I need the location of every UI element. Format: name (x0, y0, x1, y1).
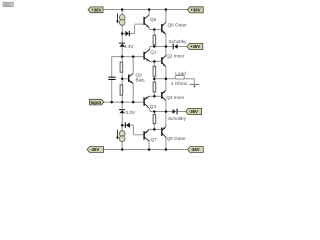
svg-text:Q5: Q5 (150, 17, 157, 22)
svg-text:SB5: SB5 (4, 3, 11, 7)
svg-text:Q8 Outer: Q8 Outer (167, 136, 187, 141)
svg-text:-36V: -36V (191, 147, 200, 152)
svg-text:-36V: -36V (189, 109, 198, 114)
svg-text:Q6 Outer: Q6 Outer (168, 23, 188, 28)
svg-text:Input: Input (91, 100, 102, 105)
svg-text:Q1: Q1 (150, 49, 157, 54)
svg-text:+36V: +36V (91, 7, 101, 12)
svg-text:Q2 Inner: Q2 Inner (166, 54, 185, 59)
svg-text:Schottky: Schottky (169, 39, 188, 44)
svg-text:4 Ohms: 4 Ohms (171, 81, 188, 86)
svg-text:3.3V: 3.3V (124, 44, 135, 49)
svg-text:-36V: -36V (90, 147, 99, 152)
svg-text:Load: Load (175, 71, 186, 76)
svg-text:Schottky: Schottky (168, 116, 187, 121)
svg-text:+36V: +36V (190, 8, 200, 13)
svg-text:+36V: +36V (190, 44, 200, 49)
svg-text:Q7: Q7 (150, 137, 157, 142)
svg-text:Bias: Bias (136, 77, 146, 82)
svg-text:Q3: Q3 (150, 104, 157, 109)
svg-text:3.3V: 3.3V (125, 110, 136, 115)
svg-text:Q4 Inner: Q4 Inner (166, 95, 185, 100)
